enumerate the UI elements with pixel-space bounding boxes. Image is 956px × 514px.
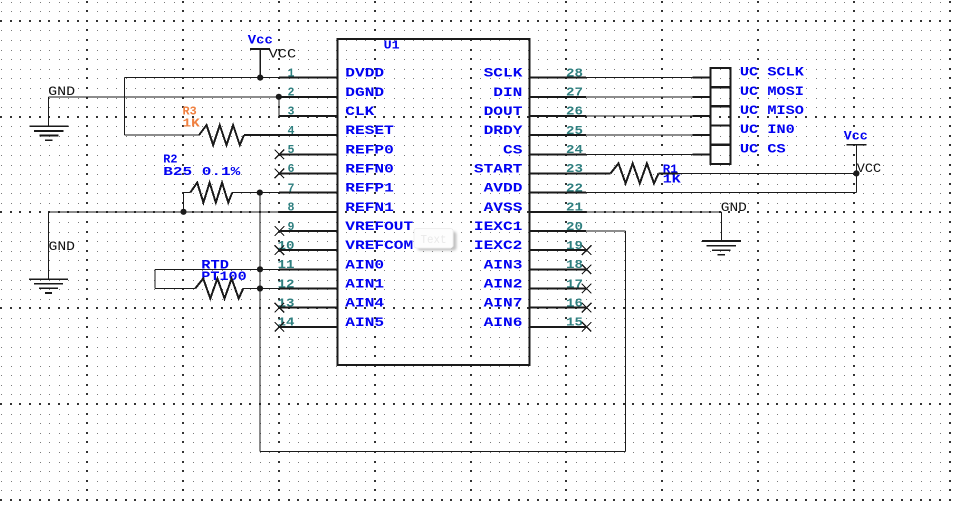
svg-text:8: 8 bbox=[288, 201, 295, 215]
wire pin11 row bbox=[155, 268, 279, 270]
svg-text:CLK: CLK bbox=[345, 104, 375, 119]
svg-text:22: 22 bbox=[566, 181, 583, 195]
connector stub 3 bbox=[693, 115, 711, 117]
no-connect X pin 10 bbox=[275, 245, 285, 255]
connector stub 5 bbox=[693, 153, 711, 155]
wire pin26 to connector bbox=[586, 115, 693, 117]
svg-text:25: 25 bbox=[566, 124, 583, 138]
wire pin28 to connector bbox=[586, 77, 693, 79]
junction pin11 bbox=[257, 266, 263, 272]
pin 21 AVSS stub bbox=[530, 211, 587, 213]
junction R2/pin8 wire bbox=[180, 209, 186, 215]
connector box 1 bbox=[711, 68, 731, 87]
pin 11 AIN0 stub bbox=[279, 268, 338, 270]
wire RTD left lead bbox=[155, 288, 195, 290]
svg-text:6: 6 bbox=[288, 162, 295, 176]
svg-text:19: 19 bbox=[566, 239, 583, 253]
pin 15 AIN6 stub bbox=[530, 326, 587, 328]
no-connect X pin 6 bbox=[275, 169, 285, 179]
svg-text:16: 16 bbox=[566, 296, 583, 310]
IC U1 body bbox=[338, 39, 530, 365]
wire pin22 AVDD row bbox=[586, 192, 856, 194]
resistor R3 bbox=[199, 125, 244, 145]
junction pin1/Vcc bbox=[257, 75, 263, 81]
pin 26 DOUT stub bbox=[530, 115, 587, 117]
wire pin8 row bbox=[49, 211, 280, 213]
connector box 2 bbox=[711, 87, 731, 106]
pin 2 DGND stub bbox=[279, 96, 338, 98]
svg-text:DOUT: DOUT bbox=[484, 104, 523, 119]
svg-text:AIN7: AIN7 bbox=[484, 296, 523, 311]
wire pin27 to connector bbox=[586, 96, 693, 98]
svg-text:UC IN0: UC IN0 bbox=[740, 122, 795, 137]
pin 14 AIN5 stub bbox=[279, 326, 338, 328]
wire R2 left jog bbox=[184, 192, 191, 194]
pin 20 IEXC1 stub bbox=[530, 230, 587, 232]
pin 16 AIN7 stub bbox=[530, 307, 587, 309]
pin 22 AVDD stub bbox=[530, 192, 587, 194]
pin 3 CLK stub bbox=[279, 115, 338, 117]
wire pin24 to connector bbox=[586, 153, 693, 155]
no-connect X pin 16 bbox=[582, 303, 592, 313]
wire R1 to VCC bbox=[678, 172, 856, 174]
wire GND to pin2 bbox=[49, 96, 279, 98]
wire IEXC1 loop vertical bbox=[625, 231, 627, 452]
svg-text:UC CS: UC CS bbox=[740, 141, 786, 156]
svg-text:AIN1: AIN1 bbox=[345, 277, 384, 292]
pin 24 CS stub bbox=[530, 153, 587, 155]
wire R3 left lead bbox=[125, 134, 200, 136]
wire left loop vertical bbox=[124, 78, 126, 136]
svg-text:Text: Text bbox=[421, 234, 447, 247]
no-connect X pin 9 bbox=[275, 226, 285, 236]
no-connect X pin 5 bbox=[275, 150, 285, 160]
pin 9 VREFOUT stub bbox=[279, 230, 338, 232]
svg-text:SCLK: SCLK bbox=[484, 66, 523, 81]
svg-text:AIN3: AIN3 bbox=[484, 257, 523, 272]
pin 10 VREFCOM stub bbox=[279, 249, 338, 251]
svg-text:7: 7 bbox=[288, 181, 295, 195]
pin 1 DVDD stub bbox=[279, 77, 338, 79]
svg-text:Vcc: Vcc bbox=[248, 34, 273, 48]
svg-text:VCC: VCC bbox=[269, 48, 297, 62]
svg-text:15: 15 bbox=[566, 316, 583, 330]
pin 18 AIN3 stub bbox=[530, 268, 587, 270]
svg-text:12: 12 bbox=[278, 277, 295, 291]
pin 25 DRDY stub bbox=[530, 134, 587, 136]
power symbol Vcc (top left) bbox=[250, 48, 270, 50]
wire R2 right to pin7 bbox=[232, 192, 279, 194]
wire R1 right lead bbox=[659, 172, 679, 174]
no-connect X pin 18 bbox=[582, 265, 592, 275]
no-connect X pin 14 bbox=[275, 322, 285, 332]
svg-text:4: 4 bbox=[288, 124, 295, 138]
tooltip artifact "Text" bbox=[414, 228, 457, 250]
svg-text:17: 17 bbox=[566, 277, 583, 291]
wire pin2 to pin3 vertical bbox=[278, 97, 280, 116]
svg-text:B25 0.1%: B25 0.1% bbox=[163, 165, 241, 179]
wire R3 to pin4 bbox=[244, 134, 279, 136]
svg-text:AVDD: AVDD bbox=[484, 181, 523, 196]
svg-text:START: START bbox=[474, 161, 523, 176]
wire AVSS drop bbox=[720, 212, 722, 241]
resistor R2 bbox=[190, 183, 232, 203]
wire main vertical bbox=[259, 193, 261, 452]
pin 19 IEXC2 stub bbox=[530, 249, 587, 251]
wire pin25 to connector bbox=[586, 134, 693, 136]
ground symbol (left bottom) bbox=[29, 278, 68, 280]
no-connect X pin 15 bbox=[582, 322, 592, 332]
svg-text:GND: GND bbox=[49, 240, 76, 254]
connector stub 1 bbox=[693, 77, 711, 79]
svg-text:DGND: DGND bbox=[345, 85, 384, 100]
svg-text:DVDD: DVDD bbox=[345, 66, 384, 81]
svg-text:2: 2 bbox=[288, 86, 295, 100]
wire AVDD up to VCC bbox=[855, 173, 857, 192]
svg-text:PT100: PT100 bbox=[201, 269, 246, 284]
no-connect X pin 17 bbox=[582, 284, 592, 294]
power symbol Vcc (right) bbox=[846, 144, 866, 146]
no-connect X pin 13 bbox=[275, 303, 285, 313]
svg-text:18: 18 bbox=[566, 258, 583, 272]
ground symbol (right) bbox=[702, 240, 741, 242]
svg-text:5: 5 bbox=[288, 143, 295, 157]
wire RTD right lead bbox=[243, 288, 279, 290]
pin 13 AIN4 stub bbox=[279, 307, 338, 309]
svg-text:DRDY: DRDY bbox=[484, 123, 523, 138]
connector box 4 bbox=[711, 126, 731, 145]
junction VCC right bbox=[853, 170, 859, 176]
connector box 5 bbox=[711, 145, 731, 164]
svg-text:AIN4: AIN4 bbox=[345, 296, 384, 311]
svg-text:UC MISO: UC MISO bbox=[740, 103, 804, 118]
wire GND2 drop bbox=[48, 212, 50, 279]
wire pin21 AVSS row bbox=[586, 211, 721, 213]
svg-text:UC MOSI: UC MOSI bbox=[740, 84, 804, 99]
connector stub 2 bbox=[693, 96, 711, 98]
pin 5 REFP0 stub bbox=[279, 153, 338, 155]
svg-text:REFN1: REFN1 bbox=[345, 200, 394, 215]
connector stub 4 bbox=[693, 134, 711, 136]
svg-text:VREFCOM: VREFCOM bbox=[345, 238, 413, 253]
svg-text:24: 24 bbox=[566, 143, 583, 157]
svg-text:3: 3 bbox=[288, 105, 295, 119]
wire pin23 to R1 bbox=[586, 172, 611, 174]
svg-text:VREFOUT: VREFOUT bbox=[345, 219, 413, 234]
svg-text:RESET: RESET bbox=[345, 123, 394, 138]
pin 27 DIN stub bbox=[530, 96, 587, 98]
ground symbol (top left) bbox=[29, 125, 68, 127]
no-connect X pin 19 bbox=[582, 245, 592, 255]
svg-text:11: 11 bbox=[278, 258, 295, 272]
svg-text:AIN0: AIN0 bbox=[345, 257, 384, 272]
pin 12 AIN1 stub bbox=[279, 288, 338, 290]
pin 17 AIN2 stub bbox=[530, 288, 587, 290]
wire RTD left loop vertical bbox=[154, 269, 156, 288]
connector box 3 bbox=[711, 106, 731, 125]
svg-text:REFP0: REFP0 bbox=[345, 142, 394, 157]
svg-text:GND: GND bbox=[721, 201, 747, 215]
svg-text:AIN5: AIN5 bbox=[345, 315, 384, 330]
svg-text:26: 26 bbox=[566, 105, 583, 119]
pin 7 REFP1 stub bbox=[279, 192, 338, 194]
svg-text:20: 20 bbox=[566, 220, 583, 234]
wire GND drop bbox=[48, 97, 50, 127]
svg-text:U1: U1 bbox=[384, 38, 400, 52]
svg-text:21: 21 bbox=[566, 201, 583, 215]
svg-text:AIN6: AIN6 bbox=[484, 315, 523, 330]
svg-text:28: 28 bbox=[566, 66, 583, 80]
svg-text:9: 9 bbox=[288, 220, 295, 234]
svg-text:AVSS: AVSS bbox=[484, 200, 523, 215]
svg-text:REFP1: REFP1 bbox=[345, 181, 394, 196]
resistor R1 bbox=[611, 163, 659, 183]
svg-text:UC SCLK: UC SCLK bbox=[740, 65, 804, 80]
svg-text:27: 27 bbox=[566, 86, 583, 100]
pin 28 SCLK stub bbox=[530, 77, 587, 79]
svg-text:1: 1 bbox=[288, 66, 295, 80]
svg-text:1K: 1K bbox=[663, 174, 681, 187]
junction pin2 bbox=[276, 94, 282, 100]
svg-text:AIN2: AIN2 bbox=[484, 277, 523, 292]
svg-text:IEXC1: IEXC1 bbox=[474, 219, 523, 234]
svg-text:DIN: DIN bbox=[493, 85, 522, 100]
resistor RTD bbox=[195, 279, 243, 299]
svg-text:IEXC2: IEXC2 bbox=[474, 238, 523, 253]
wire bottom loop horizontal bbox=[260, 451, 626, 453]
svg-text:1K: 1K bbox=[183, 117, 201, 131]
junction pin12 bbox=[257, 285, 263, 291]
svg-text:CS: CS bbox=[503, 142, 523, 157]
wire pin1 row bbox=[125, 77, 280, 79]
pin 23 START stub bbox=[530, 172, 587, 174]
svg-text:VCC: VCC bbox=[857, 162, 882, 176]
pin 8 REFN1 stub bbox=[279, 211, 338, 213]
pin 4 RESET stub bbox=[279, 134, 338, 136]
svg-text:REFN0: REFN0 bbox=[345, 161, 394, 176]
svg-text:23: 23 bbox=[566, 162, 583, 176]
wire pin20 row bbox=[586, 230, 626, 232]
junction pin7 bbox=[257, 190, 263, 196]
pin 6 REFN0 stub bbox=[279, 172, 338, 174]
svg-text:Vcc: Vcc bbox=[844, 130, 868, 144]
